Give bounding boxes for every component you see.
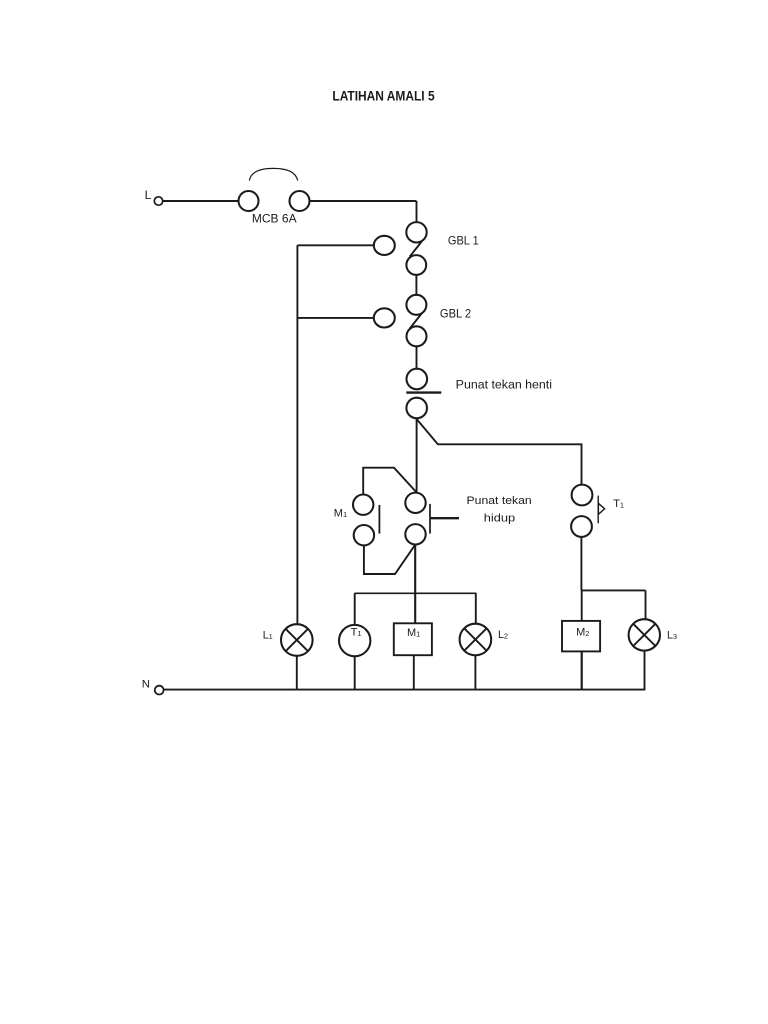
svg-text:M1: M1 (407, 627, 420, 639)
svg-text:L1: L1 (263, 629, 273, 641)
svg-text:LATIHAN AMALI 5: LATIHAN AMALI 5 (332, 88, 434, 104)
svg-text:N: N (142, 679, 150, 691)
svg-text:T1: T1 (351, 627, 362, 639)
svg-text:MCB 6A: MCB 6A (252, 212, 297, 226)
svg-text:GBL 2: GBL 2 (440, 308, 471, 321)
svg-text:L: L (145, 188, 152, 202)
svg-text:Punat tekan henti: Punat tekan henti (456, 378, 552, 392)
svg-text:T1: T1 (613, 498, 624, 510)
svg-text:L2: L2 (498, 629, 508, 641)
svg-text:hidup: hidup (484, 512, 515, 524)
svg-text:M2: M2 (576, 627, 589, 639)
svg-text:Punat tekan: Punat tekan (467, 495, 532, 507)
svg-text:L3: L3 (667, 630, 677, 642)
svg-text:GBL 1: GBL 1 (448, 235, 479, 248)
svg-text:M1: M1 (334, 508, 347, 520)
